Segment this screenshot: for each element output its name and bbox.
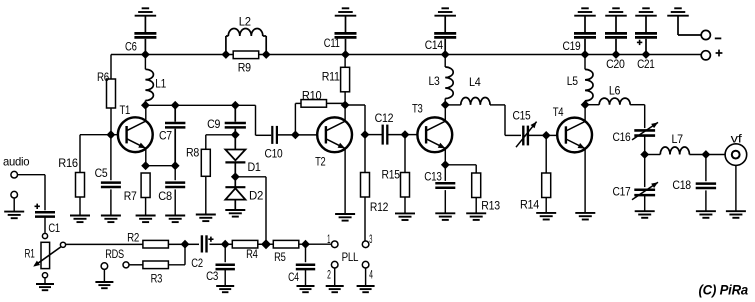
svg-text:D1: D1 (248, 160, 262, 174)
svg-text:C6: C6 (125, 39, 137, 53)
svg-text:T4: T4 (553, 105, 564, 119)
svg-text:C8: C8 (158, 189, 172, 203)
svg-text:C3: C3 (206, 269, 219, 283)
svg-text:C7: C7 (159, 129, 172, 143)
svg-text:C5: C5 (95, 166, 108, 180)
svg-text:T3: T3 (412, 102, 423, 116)
svg-text:1: 1 (327, 232, 331, 246)
svg-text:C20: C20 (606, 57, 625, 71)
svg-text:C21: C21 (637, 57, 655, 71)
svg-text:C17: C17 (613, 185, 632, 199)
svg-text:L7: L7 (672, 132, 684, 146)
svg-text:C15: C15 (513, 109, 532, 123)
svg-text:R14: R14 (520, 198, 540, 212)
svg-text:R1: R1 (25, 246, 36, 260)
svg-text:L1: L1 (155, 77, 166, 91)
svg-text:R5: R5 (274, 250, 286, 264)
svg-text:vf: vf (731, 131, 743, 145)
svg-text:R11: R11 (322, 69, 340, 83)
svg-text:C16: C16 (613, 130, 632, 144)
svg-text:R6: R6 (97, 70, 110, 84)
svg-text:(C) PiRa: (C) PiRa (699, 282, 749, 298)
svg-text:L2: L2 (239, 15, 252, 29)
svg-text:C1: C1 (48, 221, 60, 235)
svg-text:R3: R3 (151, 271, 163, 285)
svg-text:C4: C4 (288, 270, 299, 284)
svg-text:RDS: RDS (105, 247, 124, 261)
svg-text:R16: R16 (58, 156, 78, 170)
svg-text:R7: R7 (124, 189, 137, 203)
svg-text:C9: C9 (207, 117, 221, 131)
svg-text:C11: C11 (324, 36, 340, 50)
svg-text:2: 2 (327, 268, 331, 282)
svg-text:R13: R13 (481, 198, 500, 212)
svg-text:L3: L3 (429, 74, 441, 88)
svg-text:PLL: PLL (342, 250, 359, 264)
svg-text:R2: R2 (127, 231, 140, 245)
svg-text:R10: R10 (302, 89, 322, 103)
svg-text:R9: R9 (238, 61, 252, 75)
svg-text:R12: R12 (370, 200, 389, 214)
svg-text:3: 3 (369, 232, 372, 246)
svg-text:C2: C2 (191, 256, 203, 270)
svg-text:R15: R15 (382, 168, 401, 182)
svg-text:C13: C13 (424, 170, 442, 184)
svg-text:T1: T1 (120, 103, 131, 117)
svg-text:C18: C18 (672, 178, 691, 192)
svg-text:R4: R4 (246, 247, 258, 261)
svg-text:C10: C10 (265, 147, 283, 161)
svg-text:C14: C14 (425, 38, 444, 52)
svg-text:L4: L4 (469, 75, 481, 89)
svg-text:T2: T2 (315, 154, 326, 168)
svg-text:4: 4 (369, 268, 373, 282)
svg-text:D2: D2 (249, 189, 264, 203)
svg-text:audio: audio (3, 155, 30, 169)
svg-text:L6: L6 (609, 84, 621, 98)
svg-text:C19: C19 (563, 39, 582, 53)
svg-text:L5: L5 (567, 74, 579, 88)
svg-text:R8: R8 (186, 145, 200, 159)
svg-text:C12: C12 (375, 111, 394, 125)
